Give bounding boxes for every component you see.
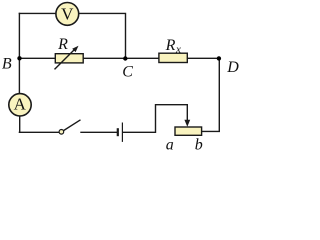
- svg-text:C: C: [122, 64, 133, 81]
- svg-text:V: V: [61, 5, 74, 24]
- svg-text:B: B: [2, 56, 12, 73]
- svg-text:A: A: [14, 95, 27, 114]
- svg-text:R: R: [165, 37, 176, 54]
- svg-text:a: a: [166, 137, 174, 154]
- svg-text:D: D: [226, 59, 239, 76]
- svg-text:b: b: [195, 137, 203, 154]
- svg-text:R: R: [57, 36, 68, 53]
- svg-text:x: x: [175, 43, 181, 55]
